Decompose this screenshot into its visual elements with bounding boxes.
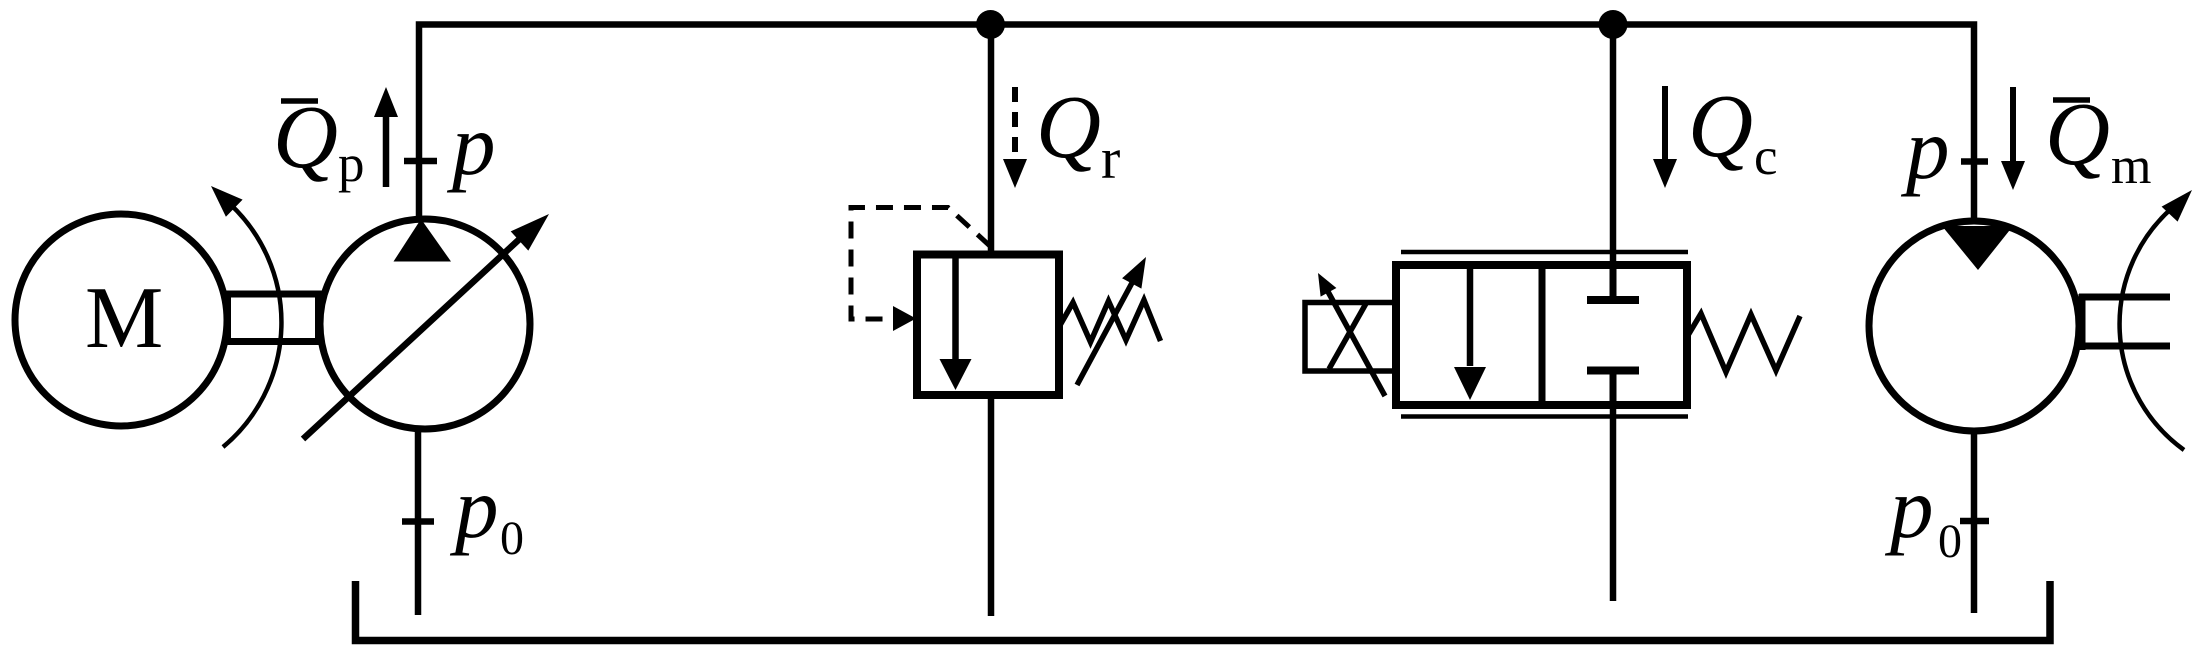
pump variable arrow	[303, 234, 525, 439]
svg-text:Q: Q	[1036, 78, 1101, 177]
wire pump suction	[415, 428, 422, 615]
relief valve pilot line (dashed)	[851, 208, 990, 320]
svg-text:p: p	[449, 459, 499, 556]
proportional valve top parallel line	[1401, 250, 1688, 255]
svg-text:0: 0	[1938, 515, 1962, 568]
port tick p motor	[1961, 158, 1988, 165]
wire valve branch upper	[1610, 25, 1617, 269]
svg-text:m: m	[2111, 138, 2151, 195]
wire relief branch lower	[988, 394, 995, 616]
svg-text:c: c	[1754, 128, 1778, 186]
motor rotation arrow	[2120, 208, 2184, 450]
hydraulic motor circle	[1869, 221, 2079, 431]
electric motor M circle	[15, 214, 227, 426]
solenoid cross stroke	[1329, 304, 1366, 370]
proportional valve bottom parallel line	[1401, 414, 1688, 419]
motor inlet triangle	[1942, 226, 2013, 270]
flow arrow Qm (down)	[2010, 87, 2016, 162]
valve position divider	[1539, 265, 1546, 405]
node junction 2	[1599, 10, 1628, 39]
relief valve body	[917, 255, 1059, 396]
flow arrow Qp (up)	[383, 112, 390, 187]
valve left position arrow	[1467, 266, 1474, 366]
svg-text:p: p	[446, 96, 496, 193]
proportional solenoid box	[1305, 303, 1396, 372]
node junction 1	[976, 10, 1005, 39]
wire relief branch upper	[988, 25, 995, 259]
valve right position blocked port bottom	[1610, 371, 1617, 405]
directional valve body	[1396, 265, 1687, 405]
valve right position blocked port top	[1610, 265, 1617, 300]
variable displacement pump circle	[320, 219, 530, 429]
wire valve branch lower	[1610, 404, 1617, 601]
shaft coupling	[228, 294, 319, 342]
pilot line arrowhead	[893, 306, 916, 331]
rotation arrow (drive shaft)	[223, 204, 281, 447]
svg-text:r: r	[1101, 126, 1120, 191]
svg-text:p: p	[1884, 459, 1934, 556]
wire bottom rail (tank line)	[356, 581, 2051, 641]
relief valve spring	[1059, 300, 1161, 342]
flow arrow Qr (dashed, down)	[1012, 87, 1018, 160]
relief valve internal arrow	[952, 258, 959, 360]
svg-text:p: p	[1900, 100, 1950, 197]
port tick p0 motor	[1960, 518, 1989, 525]
solenoid proportional arrow	[1326, 288, 1385, 396]
port tick p pump	[404, 158, 437, 165]
svg-text:Q: Q	[1688, 77, 1753, 176]
motor shaft lines	[2079, 294, 2170, 301]
flow arrow Qc (down)	[1662, 86, 1668, 160]
valve return spring	[1687, 314, 1800, 373]
relief valve adjustment arrow	[1077, 281, 1133, 385]
wire motor return	[1971, 430, 1978, 613]
port tick p0 pump	[402, 518, 434, 525]
pump outlet triangle	[394, 219, 452, 262]
svg-text:0: 0	[500, 512, 524, 565]
svg-text:M: M	[85, 270, 163, 367]
wire top rail	[419, 25, 1974, 225]
svg-text:p: p	[338, 135, 365, 193]
